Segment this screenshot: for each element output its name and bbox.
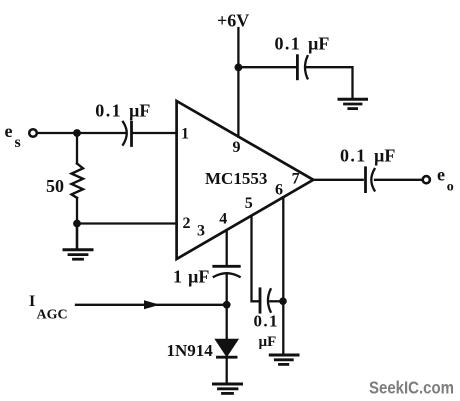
wire I_AGC input [76,304,227,306]
node e_o output terminal [423,176,430,183]
svg-text:9: 9 [233,139,241,156]
wire junction to pin 2 [77,222,177,224]
svg-text:+6V: +6V [217,11,249,31]
svg-text:I: I [29,293,35,310]
diode D1 cathode bar [218,356,237,359]
svg-text:µF: µF [374,145,395,165]
node junction dot on +6V line [235,64,243,72]
node e_s input terminal [29,129,37,137]
svg-text:SeekIC.com: SeekIC.com [369,378,454,398]
svg-text:0.1: 0.1 [95,101,122,121]
svg-text:1: 1 [181,126,189,143]
svg-text:6: 6 [275,181,283,198]
svg-text:0.1: 0.1 [254,312,279,331]
svg-text:7: 7 [292,171,300,188]
wire capacitor C5 to pin 6 line [270,300,283,302]
svg-text:µF: µF [129,101,150,121]
ground below pin 6 [270,355,298,364]
svg-text:µF: µF [259,334,277,350]
op-amp U1 MC1553 triangle [177,101,314,259]
node junction dot AGC [223,301,231,309]
capacitor C_in 0.1 uF straight plate [130,122,133,145]
diode D1 1N914 body [216,340,237,356]
svg-text:MC1553: MC1553 [205,169,267,188]
node junction dot at resistor top [73,129,81,137]
ground below diode [214,384,242,393]
wire 1 uF capacitor to AGC junction [226,273,228,340]
svg-text:o: o [447,179,454,194]
ground below resistor [64,224,92,260]
svg-text:µF: µF [308,33,329,53]
I_AGC arrowhead [144,300,160,309]
capacitor C4 1 uF straight plate [214,265,240,268]
wire resistor bottom lead [76,198,78,224]
wire e_s to input capacitor [38,132,125,134]
wire bypass capacitor to ground stem [307,67,353,98]
resistor R1 50 ohm zigzag [72,164,84,198]
capacitor C_byp 0.1 uF curved plate [305,56,308,78]
svg-text:5: 5 [245,195,253,212]
svg-text:AGC: AGC [37,308,68,323]
capacitor C5 0.1 uF straight plate [259,289,262,312]
capacitor C_byp 0.1 uF straight plate [296,56,299,79]
capacitor C_out 0.1 uF curved plate [371,169,374,191]
svg-text:1N914: 1N914 [167,341,214,360]
svg-text:µF: µF [188,267,209,287]
svg-text:0.1: 0.1 [275,33,302,53]
svg-text:4: 4 [219,210,227,227]
wire pin 4 to 1 uF capacitor [226,230,228,266]
ground below bypass capacitor [339,99,367,108]
svg-text:1: 1 [173,267,182,287]
node junction dot at resistor bottom [73,220,81,228]
node junction dot on pin 6 line [279,297,287,305]
wire diode to ground [226,357,228,383]
svg-text:2: 2 [183,215,191,232]
svg-text:3: 3 [197,222,205,239]
svg-text:0.1: 0.1 [340,145,367,165]
wire input capacitor to pin 1 [133,132,177,134]
svg-text:50: 50 [46,176,64,196]
capacitor C_out 0.1 uF straight plate [364,168,367,192]
wire +6V supply to pin 9 [237,28,239,137]
svg-text:s: s [15,134,21,151]
svg-text:e: e [5,121,13,141]
wire +6V junction to bypass capacitor [238,66,295,68]
wire resistor top lead [76,134,78,164]
wire op-amp output to output capacitor [313,179,362,181]
svg-text:e: e [437,165,445,185]
wire pin 6 to ground [282,197,284,354]
capacitor C4 1 uF curved plate [214,273,240,277]
wire pin 5 to AGC bypass capacitor [252,216,259,301]
capacitor C_in 0.1 uF curved plate [123,122,127,145]
wire output capacitor to e_o terminal [375,179,422,181]
capacitor C5 0.1 uF curved plate [268,289,271,311]
